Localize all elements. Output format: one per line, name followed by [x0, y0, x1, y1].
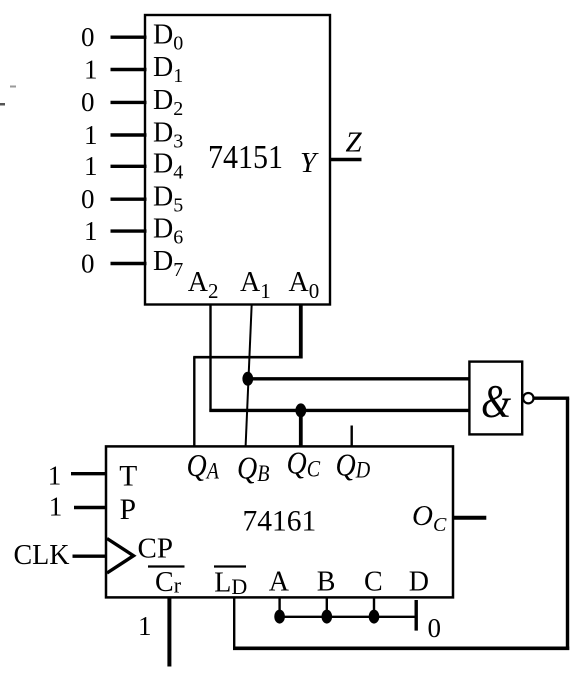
wire QC pin vertical [299, 410, 303, 446]
IC U2 74161 counter body [106, 446, 453, 597]
wire feedback bottom horizontal [233, 646, 569, 650]
wire D6 stub [111, 229, 147, 232]
svg-text:0: 0 [81, 248, 95, 278]
junction dot C [369, 610, 380, 624]
wire C pin vertical [373, 598, 375, 617]
svg-text:CLK: CLK [14, 540, 70, 571]
svg-text:1: 1 [84, 54, 98, 84]
wire QD stub [351, 426, 353, 447]
svg-text:74161: 74161 [243, 506, 317, 538]
svg-text:1: 1 [138, 611, 152, 641]
svg-text:1: 1 [84, 216, 98, 246]
junction dot on QB line [242, 372, 253, 386]
svg-text:Z: Z [346, 127, 363, 159]
wire D7 stub [111, 262, 147, 265]
junction dot A [274, 610, 285, 624]
svg-text:A: A [269, 567, 290, 598]
wire OC output [454, 516, 487, 520]
wire D4 stub [111, 165, 147, 168]
wire QA vertical [193, 357, 195, 446]
svg-text:1: 1 [84, 151, 98, 181]
wire NAND output vertical down [566, 398, 569, 650]
junction dot B [322, 610, 333, 624]
stray mark 1 [10, 86, 16, 88]
wire D0 stub [111, 36, 147, 39]
gate U3 NAND body [469, 362, 522, 435]
wire CLK stub [73, 555, 108, 558]
wire A2 pin vertical [209, 304, 211, 412]
svg-text:CP: CP [138, 533, 173, 565]
wire A pin vertical [278, 598, 280, 617]
junction dot on QC line [295, 403, 306, 417]
wire NAND output horizontal [534, 397, 570, 400]
clock edge triangle [107, 539, 134, 574]
wire B pin vertical [326, 598, 328, 617]
wire D3 stub [111, 133, 147, 136]
svg-text:&: & [481, 376, 511, 427]
svg-text:T: T [119, 461, 137, 493]
wire D pin terminal bar [415, 600, 418, 631]
wire Cr input vertical [167, 598, 171, 667]
wire P stub [74, 506, 107, 509]
svg-text:0: 0 [81, 87, 95, 117]
svg-text:C: C [364, 567, 383, 598]
svg-text:0: 0 [428, 613, 442, 643]
svg-text:1: 1 [49, 491, 63, 521]
stray mark 2 [0, 103, 5, 106]
wire T stub [71, 472, 107, 475]
wire D5 stub [111, 197, 147, 200]
wire QA to A0 horizontal [193, 356, 302, 359]
wire A2 to QC to NAND horizontal [209, 409, 470, 412]
svg-text:1: 1 [84, 120, 98, 150]
wire D1 stub [111, 68, 147, 71]
wire Y output [330, 158, 362, 161]
wire A1 to QB slanted [246, 304, 252, 446]
pin label Cr with overline [148, 565, 185, 567]
gate U3 inversion bubble [523, 393, 533, 403]
wire QB to NAND input horizontal [248, 377, 471, 380]
svg-text:D: D [409, 567, 429, 598]
wire ABCD tie horizontal [276, 616, 416, 618]
pin label LD with overline [214, 565, 246, 567]
svg-text:74151: 74151 [208, 138, 283, 175]
svg-text:B: B [317, 567, 336, 598]
wire D2 stub [111, 101, 147, 104]
IC U1 74151 multiplexer body [145, 15, 330, 305]
svg-text:1: 1 [48, 460, 62, 490]
svg-text:0: 0 [81, 22, 95, 52]
wire LD pin vertical [233, 597, 235, 650]
svg-text:Cr: Cr [155, 567, 182, 598]
svg-text:0: 0 [81, 184, 95, 214]
wire A0 pin vertical [299, 304, 303, 359]
svg-text:P: P [120, 494, 136, 526]
